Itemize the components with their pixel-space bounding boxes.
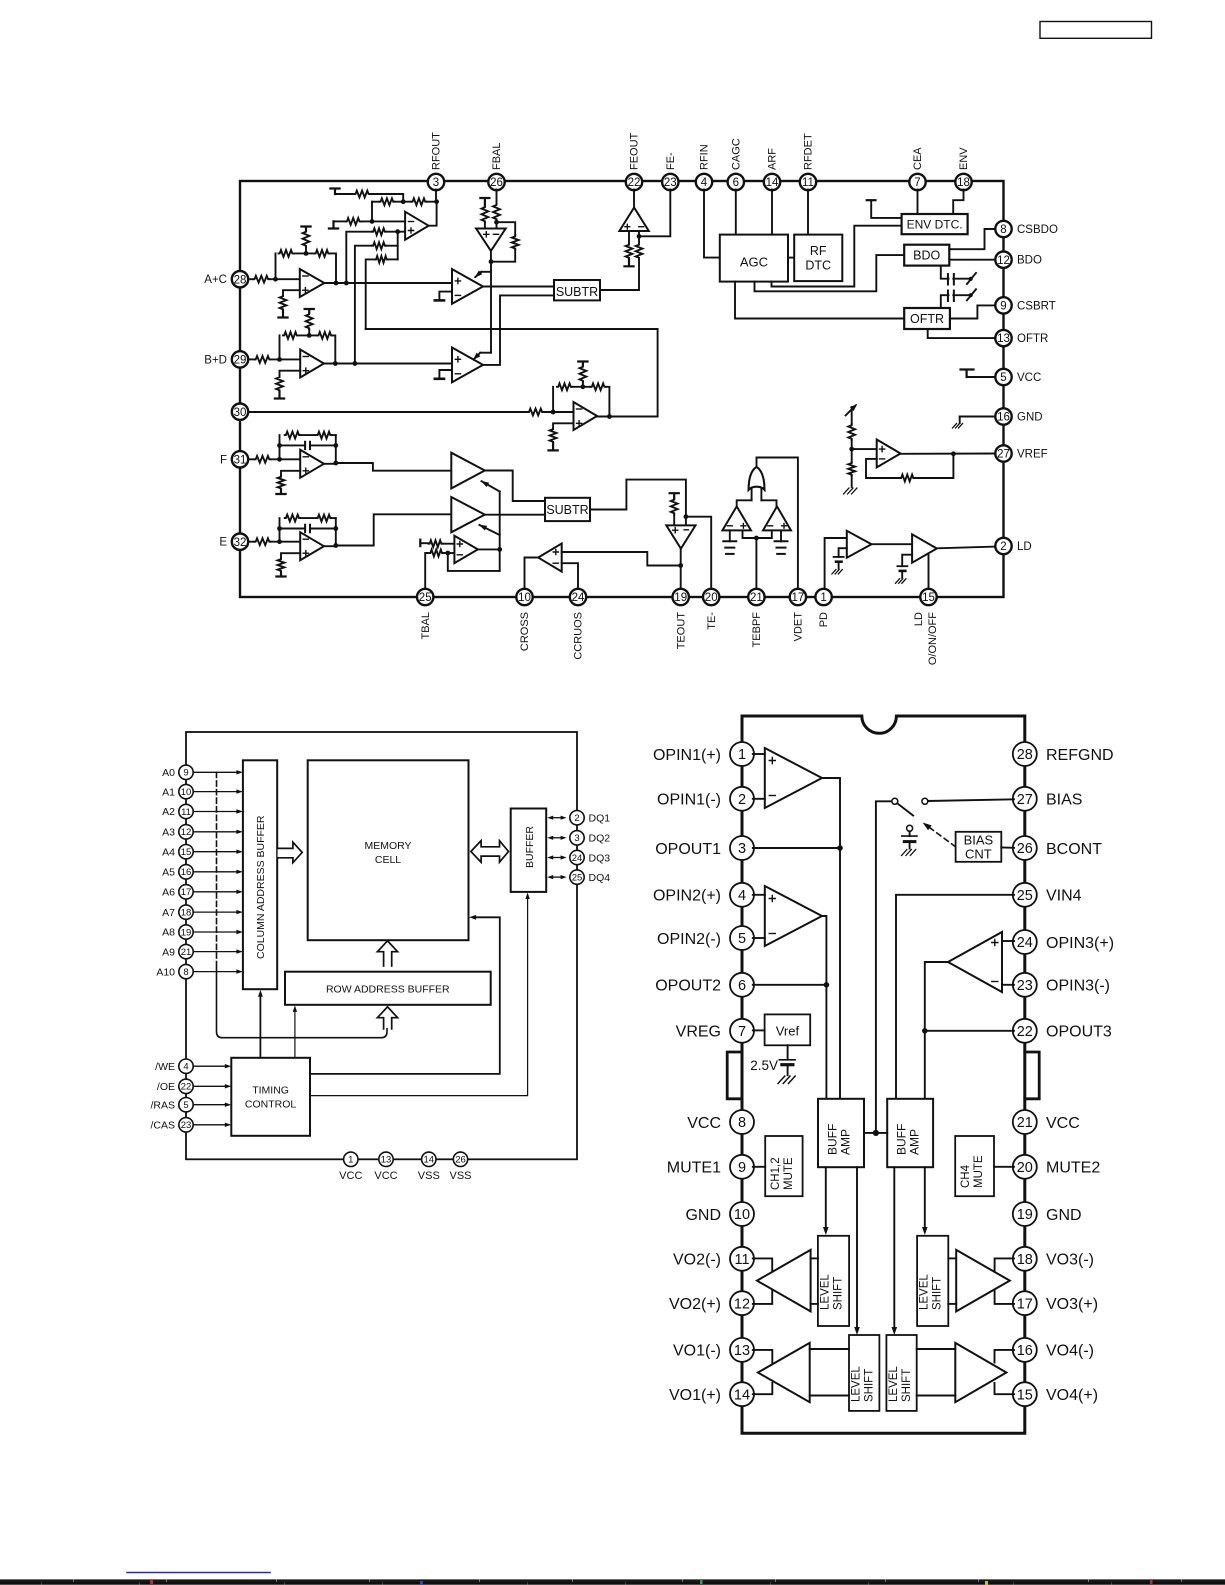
wire R8 to U2 xyxy=(269,278,300,280)
svg-text:18: 18 xyxy=(957,177,970,189)
wire A6 to CAB xyxy=(193,890,243,894)
node op2out xyxy=(824,982,830,988)
wire OP2 out rail xyxy=(822,916,826,1099)
block AGC xyxy=(720,235,788,282)
address bus to RAB xyxy=(217,968,388,1038)
resistor R28 xyxy=(900,475,915,482)
pin 24 (OPIN3(+)) xyxy=(1013,930,1114,954)
pin 1 (PD) bottom edge xyxy=(815,589,831,627)
wire Rf mid (E amp U8) xyxy=(300,517,316,519)
resistor R8 (pin28 input) xyxy=(253,276,269,283)
pin 30 (no label) left edge xyxy=(232,404,248,420)
ground tick G6 xyxy=(624,259,633,266)
pin 5 (OPIN2(-)) xyxy=(657,926,754,950)
op-amp U6 (pin30 amp) xyxy=(574,402,598,430)
wire R30 to U17 xyxy=(484,223,486,229)
wire n21 to U16 xyxy=(852,448,877,450)
switch S1 pole xyxy=(876,801,892,1133)
svg-text:28: 28 xyxy=(234,274,247,286)
block ROW ADDRESS BUFFER xyxy=(285,972,491,1005)
wire pin14 bracket xyxy=(753,1383,773,1394)
node n13 xyxy=(551,410,556,415)
svg-text:CCRUOS: CCRUOS xyxy=(573,612,585,660)
svg-text:17: 17 xyxy=(1017,1296,1033,1312)
svg-text:2: 2 xyxy=(738,792,746,808)
wire DQ3 arrow xyxy=(547,855,566,859)
wire U4 out xyxy=(483,286,554,288)
svg-text:AGC: AGC xyxy=(740,255,768,270)
heatsink tab right xyxy=(1025,1052,1039,1099)
pin 21 (A9) xyxy=(162,944,193,958)
block SUBTR1 xyxy=(554,280,600,300)
node in (E amp U8) xyxy=(277,539,282,544)
pin 19 (TEOUT) bottom edge xyxy=(673,589,689,649)
svg-text:SHIFT: SHIFT xyxy=(833,1277,845,1310)
wire U10 plus in xyxy=(562,552,681,566)
wire R20 down to out xyxy=(606,387,610,417)
hollow arrow into RAB bottom xyxy=(377,1007,397,1029)
resistor R17 vertical xyxy=(276,376,283,392)
pin 3 (RFOUT) top edge xyxy=(428,132,444,190)
wire R1 to node xyxy=(370,194,403,202)
wire AGC to ENVDTC xyxy=(772,226,902,287)
node n1 xyxy=(401,199,406,204)
svg-text:CSBRT: CSBRT xyxy=(1017,300,1056,312)
amp T1 (tracking gain) xyxy=(451,453,485,489)
node n11 xyxy=(333,361,338,366)
switch S1 blade xyxy=(897,803,913,815)
svg-text:6: 6 xyxy=(738,978,746,994)
svg-text:13: 13 xyxy=(997,333,1010,345)
node n6 xyxy=(304,251,309,256)
pin 24 (CCRUOS) bottom edge xyxy=(570,589,586,660)
pin 32 (E) left edge xyxy=(219,534,248,550)
wire pin26 down xyxy=(496,190,498,204)
wire Rf mid (F amp U7) xyxy=(300,434,316,436)
wire R9-R10 xyxy=(294,252,315,254)
svg-text:REFGND: REFGND xyxy=(1046,747,1114,764)
svg-text:3: 3 xyxy=(738,841,746,857)
wire fb right rail (F amp U7) xyxy=(335,435,337,463)
svg-text:/OE: /OE xyxy=(157,1081,175,1093)
resistor R30 vertical xyxy=(482,206,489,223)
svg-text:18: 18 xyxy=(181,908,192,919)
resistor Rg vertical (F amp U7) xyxy=(278,476,285,490)
pin 4 (/WE) xyxy=(155,1059,193,1073)
svg-text:BUFFER: BUFFER xyxy=(524,826,536,868)
svg-text:COLUMN ADDRESS BUFFER: COLUMN ADDRESS BUFFER xyxy=(255,815,267,959)
pin 28 (A+C) left edge xyxy=(204,271,248,287)
wire U18 right leg xyxy=(638,231,640,236)
wire T2 out xyxy=(485,514,545,516)
pin 12 (VO2(+)) xyxy=(669,1291,754,1315)
svg-text:10: 10 xyxy=(181,787,192,798)
svg-text:A+C: A+C xyxy=(204,274,227,286)
svg-text:A5: A5 xyxy=(162,867,175,879)
wire pin18 down xyxy=(953,190,963,215)
resistor R27 vertical xyxy=(848,462,855,476)
wire R6 right xyxy=(386,245,398,247)
power tick T6 xyxy=(670,493,679,498)
pin 31 (F) left edge xyxy=(220,451,248,467)
svg-text:ENV: ENV xyxy=(958,147,970,170)
wire R2-R3 xyxy=(394,201,411,203)
pin 5 (/RAS) xyxy=(150,1098,193,1112)
pin 13 (VO1(-)) xyxy=(673,1338,754,1362)
wire R7 right xyxy=(388,258,398,260)
scan noise band (bottom) xyxy=(0,1580,1225,1585)
svg-text:TIMING: TIMING xyxy=(252,1084,289,1096)
wire U3 out to U5 xyxy=(324,363,452,365)
svg-text:24: 24 xyxy=(1017,935,1033,951)
IC3 outline with index notch xyxy=(742,716,1025,1433)
pin 29 (B+D) left edge xyxy=(204,351,248,367)
pin 8 (CSBDO) right edge xyxy=(995,221,1058,237)
svg-text:A3: A3 xyxy=(162,827,175,839)
pin 20 (TE-) bottom edge xyxy=(703,589,719,630)
pot arrow xyxy=(846,404,858,416)
wire comp bias bus xyxy=(743,530,772,538)
pin 18 (VO3(-)) xyxy=(1013,1247,1094,1271)
wire BUFF2 to LS2R xyxy=(892,1167,898,1335)
wire OP1 out rail xyxy=(822,778,840,1099)
wire R10 down to out xyxy=(330,253,337,283)
resistor R9 xyxy=(279,250,294,257)
resistor R19 xyxy=(557,383,572,390)
svg-text:AMP: AMP xyxy=(908,1129,922,1155)
block CH4 MUTE xyxy=(955,1136,994,1196)
wire comp rail xyxy=(490,262,492,353)
amp VO3 (output 3) xyxy=(956,1250,1010,1312)
node n9 xyxy=(277,357,282,362)
svg-text:18: 18 xyxy=(1017,1252,1033,1268)
arrow gc to T1 xyxy=(481,481,500,492)
wire OR inputs bar xyxy=(737,489,777,506)
arrow gc to T2 xyxy=(479,525,500,535)
svg-text:RF: RF xyxy=(810,244,827,258)
svg-text:A7: A7 xyxy=(162,907,175,919)
wire DQ1 arrow xyxy=(547,816,566,820)
wire BIASCNT to pin26 xyxy=(1001,846,1014,848)
svg-text:10: 10 xyxy=(518,592,531,604)
pin 11 (VO2(-)) xyxy=(673,1247,754,1271)
wire U14 out xyxy=(872,543,913,545)
resistor Rf2 (F amp U7) xyxy=(317,432,332,439)
wire BDO to pin8 xyxy=(949,229,995,249)
wire T1 out xyxy=(485,471,545,502)
pin 17 (VDET) bottom edge xyxy=(790,589,806,642)
op-amp U9 (TBAL amp) xyxy=(454,536,478,563)
power tick T2 xyxy=(301,227,310,231)
svg-text:/CAS: /CAS xyxy=(150,1120,175,1132)
svg-text:OPOUT2: OPOUT2 xyxy=(655,978,721,995)
svg-text:GND: GND xyxy=(685,1207,721,1224)
pin 21 (TEBPF) bottom edge xyxy=(748,589,764,648)
svg-text:PD: PD xyxy=(818,612,830,627)
wire TE- pin20 xyxy=(686,517,711,589)
svg-text:17: 17 xyxy=(792,592,805,604)
node n18 xyxy=(684,514,689,519)
pin 16 (GND) right edge xyxy=(995,408,1042,424)
pin 20 (MUTE2) xyxy=(1013,1155,1101,1179)
pin 3 (DQ2) xyxy=(570,831,610,845)
svg-text:ROW ADDRESS BUFFER: ROW ADDRESS BUFFER xyxy=(326,984,450,996)
op-amp U4 (focus sum) xyxy=(452,269,483,304)
svg-text:15: 15 xyxy=(1017,1387,1033,1403)
pin 13 (VCC) xyxy=(374,1152,397,1182)
svg-text:14: 14 xyxy=(734,1387,750,1403)
svg-text:25: 25 xyxy=(419,592,432,604)
wire A2 to CAB xyxy=(193,809,243,813)
svg-text:15: 15 xyxy=(181,847,192,858)
wire C9 down xyxy=(787,1066,789,1075)
pin 9 (A0) xyxy=(162,765,193,779)
pin 27 (BIAS) xyxy=(1013,787,1083,811)
svg-text:F: F xyxy=(220,454,227,466)
wire pin22 stub xyxy=(925,1030,1014,1032)
node n21 xyxy=(849,447,854,452)
wire OFTR to pin13 xyxy=(928,329,996,338)
svg-text:ARF: ARF xyxy=(767,148,779,170)
resistor R (pin input) (F amp U7) xyxy=(255,456,271,463)
resistor R16 vertical xyxy=(306,313,313,330)
svg-text:15: 15 xyxy=(922,592,935,604)
wire pin23 stub xyxy=(1002,984,1014,986)
resistor Rg vertical (E amp U8) xyxy=(278,558,285,572)
svg-text:21: 21 xyxy=(750,592,763,604)
wire R7 left rail xyxy=(366,259,375,329)
arrow comp to U4 xyxy=(475,270,491,277)
resistor R15 xyxy=(317,332,332,339)
pin 1 (VCC) xyxy=(339,1152,362,1182)
svg-text:8: 8 xyxy=(1000,224,1006,236)
wire BDO bottom xyxy=(941,266,949,279)
op-amp U10 (CROSS amp) xyxy=(538,544,562,572)
wire U6 out route xyxy=(366,329,658,417)
resistor Rf1 (E amp U8) xyxy=(285,515,301,522)
svg-text:BUFF: BUFF xyxy=(895,1124,909,1155)
node cap-r (F amp U7) xyxy=(333,443,338,448)
svg-text:MUTE: MUTE xyxy=(973,1155,985,1188)
resistor R32 vertical xyxy=(626,244,633,260)
wire VO2-LS1L a xyxy=(811,1257,818,1259)
node n8 xyxy=(344,281,349,286)
resistor R33 vertical xyxy=(636,244,643,260)
wire cap left (F amp U7) xyxy=(280,444,306,446)
wire pin17 bracket xyxy=(995,1290,1014,1304)
svg-text:12: 12 xyxy=(997,255,1010,267)
svg-text:22: 22 xyxy=(181,1082,192,1093)
wire pin5 stub xyxy=(753,937,765,939)
node op3out xyxy=(922,1028,928,1034)
svg-text:VO2(+): VO2(+) xyxy=(669,1296,721,1313)
op-amp (E amp U8) xyxy=(300,532,324,560)
wire fb up to out xyxy=(915,454,954,478)
amp VO4 (output 4) xyxy=(955,1343,1006,1402)
svg-text:BUFF: BUFF xyxy=(826,1124,840,1155)
node n2 (RFOUT) xyxy=(434,199,439,204)
wire pin28 to R8 xyxy=(248,278,253,280)
wire R11 to n6 xyxy=(305,247,307,253)
svg-text:VCC: VCC xyxy=(374,1170,397,1182)
svg-text:21: 21 xyxy=(181,947,192,958)
node n24 xyxy=(489,259,494,264)
resistor R7 xyxy=(375,256,388,263)
node cap-l (F amp U7) xyxy=(277,443,282,448)
wire n25 to pin23 xyxy=(639,190,670,237)
wire R23 to U9 xyxy=(443,543,455,545)
wire pin11 bracket xyxy=(753,1258,772,1271)
svg-text:Vref: Vref xyxy=(776,1023,800,1038)
wire TIMING to MC xyxy=(310,915,500,1074)
svg-text:14: 14 xyxy=(424,1155,435,1166)
wire A8 to CAB xyxy=(193,930,243,934)
svg-text:25: 25 xyxy=(572,873,583,884)
pin 17 (VO3(+)) xyxy=(1013,1291,1098,1315)
wire U6 plus input xyxy=(553,423,573,428)
svg-text:LEVEL: LEVEL xyxy=(820,1274,832,1310)
block Vref xyxy=(765,1014,811,1045)
svg-text:19: 19 xyxy=(1017,1207,1033,1223)
wire fb up B xyxy=(279,335,281,359)
wire pin2 stub xyxy=(753,798,765,800)
svg-text:31: 31 xyxy=(234,454,247,466)
wire TIMING to CAB xyxy=(258,990,263,1058)
svg-text:23: 23 xyxy=(1017,978,1033,994)
svg-text:SHIFT: SHIFT xyxy=(932,1277,944,1310)
wire U1 out to pin3 xyxy=(429,202,437,226)
resistor R22 vertical xyxy=(550,428,557,443)
wire fb left rail (F amp U7) xyxy=(279,435,281,459)
capacitor C (F amp U7) xyxy=(305,442,310,449)
svg-text:OPOUT1: OPOUT1 xyxy=(655,841,721,858)
resistor R6 xyxy=(372,242,386,249)
capacitor C2 to gnd xyxy=(723,530,736,554)
svg-text:27: 27 xyxy=(1017,792,1033,808)
wire feedback vertical xyxy=(371,202,373,222)
svg-text:A2: A2 xyxy=(162,806,175,818)
svg-text:OPIN1(-): OPIN1(-) xyxy=(657,792,721,809)
wire pin13 bracket xyxy=(753,1350,773,1363)
op-amp U2 (A+C amp) xyxy=(300,269,325,297)
svg-text:/RAS: /RAS xyxy=(150,1099,175,1111)
svg-text:RFDET: RFDET xyxy=(803,133,815,170)
wire pin30 line xyxy=(248,411,528,413)
wire pin to R (E amp U8) xyxy=(248,541,254,543)
svg-text:SUBTR: SUBTR xyxy=(556,285,598,299)
capacitor C8 contact xyxy=(902,825,918,855)
heatsink tab left xyxy=(727,1052,742,1099)
svg-text:TBAL: TBAL xyxy=(420,612,432,640)
node sw-buff2 xyxy=(873,1130,879,1136)
wire R5 to n4 and U1+ xyxy=(386,231,405,233)
svg-text:AMP: AMP xyxy=(839,1129,853,1155)
svg-text:TEOUT: TEOUT xyxy=(675,612,687,650)
capacitor C9 xyxy=(779,1060,795,1065)
block CH1,2 MUTE xyxy=(765,1136,802,1196)
op-amp U18 (FEOUT drv) xyxy=(619,208,648,232)
svg-text:12: 12 xyxy=(734,1296,750,1312)
wire pin16 bracket xyxy=(995,1350,1015,1363)
ground hatch G5 xyxy=(844,488,857,494)
svg-text:20: 20 xyxy=(705,592,718,604)
svg-text:5: 5 xyxy=(738,931,746,947)
wire fb up E xyxy=(552,387,554,412)
wire /RAS to TIMING xyxy=(193,1103,231,1107)
svg-text:11: 11 xyxy=(802,177,814,189)
wire U2 out to U4 xyxy=(324,282,452,284)
svg-text:A4: A4 xyxy=(162,846,175,858)
svg-text:2.5V: 2.5V xyxy=(750,1058,778,1073)
pin 8 (VCC) xyxy=(687,1110,754,1134)
wire U7 out to T1 xyxy=(336,463,452,471)
pin 11 (RFDET) top edge xyxy=(800,133,816,190)
pin 27 (VREF) right edge xyxy=(995,445,1047,461)
switch S1 contact a xyxy=(892,798,898,804)
wire pin4 stub xyxy=(753,894,765,896)
svg-text:7: 7 xyxy=(738,1024,746,1040)
svg-text:MEMORY: MEMORY xyxy=(364,840,411,852)
wire R21 to n14 xyxy=(582,382,584,387)
hollow arrow CAB to MC xyxy=(278,842,303,863)
svg-text:32: 32 xyxy=(234,537,247,549)
pin 14 (ARF) top edge xyxy=(764,148,780,190)
block LEVEL SHIFT 1L xyxy=(818,1236,849,1326)
block OFTR xyxy=(904,308,950,329)
address bus dashed xyxy=(216,772,218,970)
svg-text:16: 16 xyxy=(181,867,192,878)
wire VO3-LS1R a xyxy=(948,1257,956,1259)
wire pin15 up xyxy=(928,554,930,589)
wire /OE to TIMING xyxy=(193,1084,231,1088)
resistor R18 xyxy=(528,409,544,416)
block ENV DTC. xyxy=(902,214,968,234)
wire R to opamp (E amp U8) xyxy=(271,541,301,543)
capacitor C7 switch xyxy=(948,289,976,301)
svg-text:VO3(+): VO3(+) xyxy=(1046,1296,1098,1313)
ground tick (F amp U7) xyxy=(276,490,285,494)
pin 26 (BCONT) xyxy=(1013,836,1102,860)
wire pin11 down xyxy=(807,190,809,235)
svg-text:VCC: VCC xyxy=(339,1170,362,1182)
wire cap left (E amp U8) xyxy=(280,528,306,530)
svg-text:VO4(-): VO4(-) xyxy=(1046,1343,1094,1360)
svg-text:OPIN2(-): OPIN2(-) xyxy=(657,931,721,948)
ground tick G3 xyxy=(275,392,284,399)
wire OR top to VDET xyxy=(757,458,798,589)
pin 14 (VO1(+)) xyxy=(669,1382,754,1406)
wire U11 out to pin19 xyxy=(680,548,682,589)
block LEVEL SHIFT 1R xyxy=(917,1236,948,1326)
svg-text:A8: A8 xyxy=(162,927,175,939)
block BUFF AMP 2 xyxy=(887,1099,933,1167)
wire R15 down to out xyxy=(332,335,335,363)
svg-text:DQ2: DQ2 xyxy=(589,833,611,845)
pin 12 (BDO) right edge xyxy=(995,252,1042,268)
amp U15 (LD driver) xyxy=(912,534,937,562)
svg-text:DQ3: DQ3 xyxy=(589,852,611,864)
wire R13 to U3 xyxy=(271,358,301,360)
svg-text:17: 17 xyxy=(181,887,192,898)
svg-text:B+D: B+D xyxy=(204,354,227,366)
pin 10 (A1) xyxy=(162,784,193,798)
block BDO xyxy=(904,245,949,266)
label 2.5V xyxy=(750,1058,778,1073)
wire n25 to R33 xyxy=(638,236,640,243)
wire U5 out xyxy=(483,295,554,365)
pin 6 (OPOUT2) xyxy=(655,973,754,997)
block BUFF AMP 1 xyxy=(818,1099,864,1167)
